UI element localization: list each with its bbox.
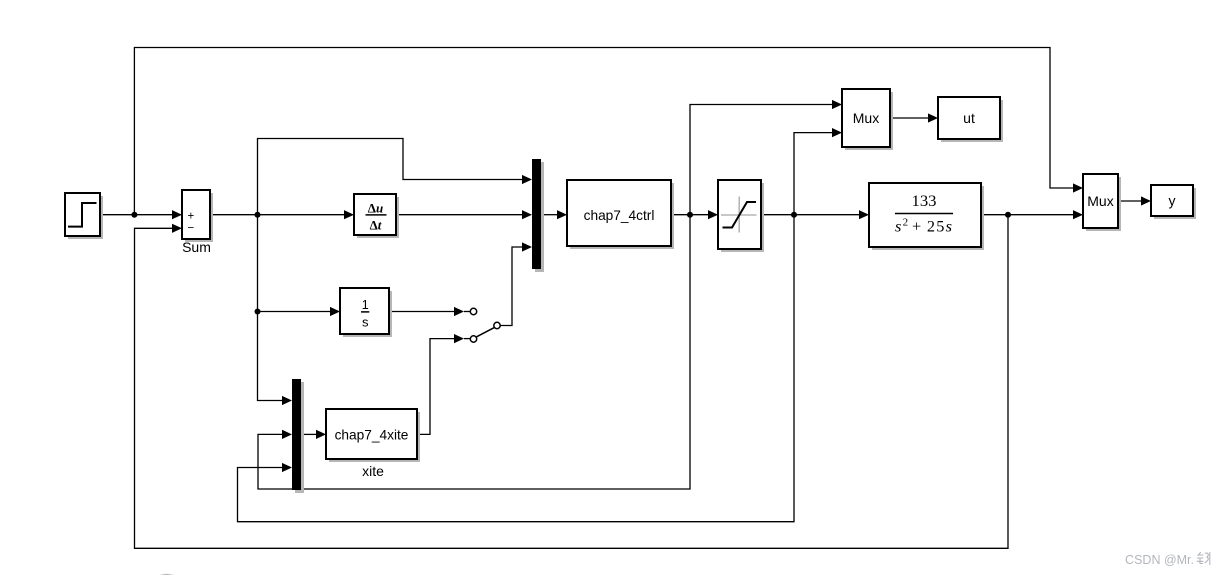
svg-text:CSDN @Mr.: CSDN @Mr. [1125,553,1194,567]
svg-text:Mux: Mux [853,110,879,126]
svg-text:Δt: Δt [370,217,382,232]
svg-text:ut: ut [963,110,975,126]
svg-text:+: + [187,211,194,223]
svg-text:Mux: Mux [1087,193,1113,209]
svg-text:chap7_4ctrl: chap7_4ctrl [584,208,655,223]
svg-text:Sum: Sum [182,239,211,255]
svg-text:Δu: Δu [368,200,383,215]
svg-text:chap7_4xite: chap7_4xite [335,428,409,443]
svg-text:−: − [187,223,194,235]
svg-text:s: s [362,315,369,330]
svg-text:xite: xite [362,463,384,479]
svg-text:1: 1 [362,298,369,312]
svg-text:133: 133 [912,193,937,210]
svg-text:y: y [1169,193,1176,209]
